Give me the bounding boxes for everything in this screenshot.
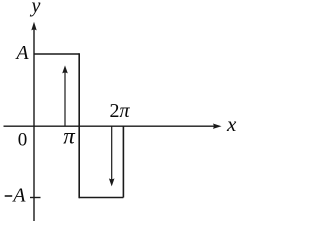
label -A minus sign: [5, 195, 13, 197]
square wave: top segment at y=A: [34, 53, 79, 55]
x-axis: [4, 125, 216, 127]
up arrow shaft: [64, 71, 66, 126]
svg-text:0: 0: [18, 130, 28, 151]
svg-text:A: A: [14, 42, 29, 64]
svg-text:x: x: [226, 112, 237, 136]
square wave: vertical rise at x=2pi: [122, 126, 124, 197]
y-axis arrowhead: [31, 22, 36, 31]
svg-text:A: A: [11, 185, 26, 207]
svg-text:y: y: [30, 0, 41, 17]
svg-text:2π: 2π: [110, 100, 131, 122]
up arrow head: [62, 65, 68, 73]
y-axis: [33, 29, 35, 221]
down arrow shaft: [111, 126, 113, 181]
square wave: vertical drop at x=pi: [78, 53, 80, 198]
x-axis arrowhead: [213, 124, 222, 129]
down arrow head: [109, 178, 115, 186]
svg-text:π: π: [63, 124, 76, 149]
tick at -A on y-axis: [30, 197, 41, 199]
square wave: bottom segment at y=-A: [79, 197, 123, 199]
